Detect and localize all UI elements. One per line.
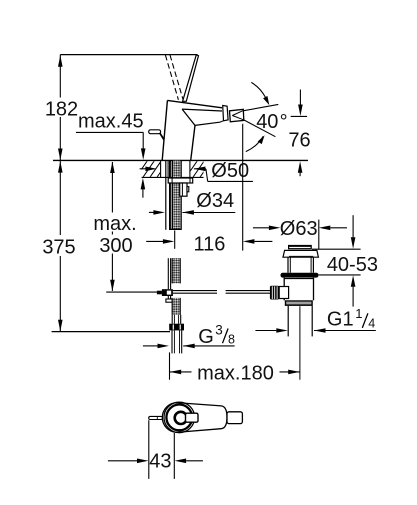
dim 116 (spout projection) bbox=[174, 230, 176, 248]
tailpipe bbox=[287, 306, 289, 336]
dim diameter 63 bbox=[253, 227, 272, 229]
svg-text:max.180: max.180 bbox=[197, 362, 274, 384]
waste body bbox=[283, 278, 285, 287]
threaded connector (lower segment) bbox=[172, 298, 181, 315]
supply tube smooth section bbox=[171, 315, 173, 324]
handle raised position (dashed) bbox=[165, 55, 183, 100]
svg-text:116: 116 bbox=[194, 234, 226, 256]
svg-text:43: 43 bbox=[149, 451, 171, 473]
svg-text:1: 1 bbox=[355, 306, 362, 321]
flexible hose bbox=[171, 330, 173, 353]
threaded shank bbox=[169, 160, 171, 229]
svg-text:°: ° bbox=[280, 111, 288, 133]
svg-text:76: 76 bbox=[288, 129, 310, 151]
svg-text:3: 3 bbox=[215, 322, 223, 337]
dim diameter 34 bbox=[149, 211, 154, 213]
waste flange bbox=[283, 250, 318, 257]
svg-text:G: G bbox=[198, 326, 214, 348]
svg-text:8: 8 bbox=[228, 332, 235, 346]
mounting nut bbox=[180, 183, 187, 196]
threaded connector (lower, upper segment) bbox=[172, 258, 181, 283]
knob neck bbox=[279, 287, 288, 299]
label G1 1/4 with arrows bbox=[255, 330, 276, 332]
pop-up rod (vertical, upper) bbox=[165, 160, 167, 229]
drain centre line / max180 right extension bbox=[299, 306, 301, 380]
top reference line (max handle height) bbox=[60, 54, 197, 56]
bottom reference line bbox=[52, 331, 170, 333]
pop-up linkage fitting bbox=[162, 289, 173, 296]
dim 182 bbox=[59, 55, 61, 161]
svg-text:300: 300 bbox=[99, 235, 132, 257]
spout tip band bbox=[223, 106, 228, 121]
svg-text:Ø50: Ø50 bbox=[211, 160, 249, 182]
swivel arc upper with arrowhead bbox=[251, 82, 265, 97]
dim 43 bbox=[148, 420, 150, 479]
label G 3/8 with arrows bbox=[143, 345, 158, 347]
faucet body outline bbox=[162, 100, 167, 160]
svg-text:max.: max. bbox=[93, 213, 136, 235]
swivel arc lower with arrowhead bbox=[246, 136, 263, 151]
G3/8 nut bbox=[169, 324, 184, 331]
thin rod left + collar bbox=[106, 291, 162, 293]
rubber gasket (black ring) bbox=[281, 273, 319, 278]
pop-up rod (vertical, lower) bbox=[167, 258, 169, 289]
dim max.180 bbox=[169, 352, 171, 379]
svg-text:G1: G1 bbox=[327, 308, 354, 330]
dim 40-53 bbox=[352, 215, 354, 237]
svg-text:40-53: 40-53 bbox=[327, 254, 378, 276]
svg-text:182: 182 bbox=[45, 98, 78, 120]
svg-text:4: 4 bbox=[368, 317, 375, 331]
deck hole edges bbox=[160, 160, 162, 177]
svg-text:375: 375 bbox=[42, 237, 75, 259]
plan view spout end bbox=[227, 412, 242, 424]
svg-text:Ø34: Ø34 bbox=[196, 190, 234, 212]
horizontal pop-up linkage rod bbox=[173, 290, 217, 292]
horseshoe washer bbox=[168, 178, 193, 183]
deck underside line bbox=[142, 176, 204, 178]
coupling ring bbox=[285, 300, 313, 306]
plan view stub (flow control) bbox=[186, 413, 199, 422]
plan view body bbox=[162, 403, 227, 433]
dim max.300 (supply below deck) bbox=[111, 162, 113, 291]
knurled knob bbox=[270, 286, 279, 300]
pop-up rod knob on body bbox=[149, 130, 161, 134]
aerator / mousseur bbox=[230, 109, 244, 121]
waste upper cylinder bbox=[287, 257, 289, 273]
dim 375 bbox=[59, 161, 61, 331]
plan view cartridge circles bbox=[164, 402, 195, 433]
deck line bbox=[53, 159, 308, 161]
svg-text:max.45: max.45 bbox=[78, 111, 144, 133]
handle lever blade (solid) bbox=[183, 55, 199, 102]
svg-text:40: 40 bbox=[256, 111, 278, 133]
40 degree spray cone lines bbox=[244, 104, 278, 110]
waste plug cap bbox=[289, 246, 312, 249]
svg-text:Ø63: Ø63 bbox=[280, 218, 318, 240]
plan view pop-up pin bbox=[149, 416, 163, 419]
dim 76 (spout height) bbox=[291, 115, 307, 117]
dim diameter 50 bbox=[140, 168, 146, 170]
